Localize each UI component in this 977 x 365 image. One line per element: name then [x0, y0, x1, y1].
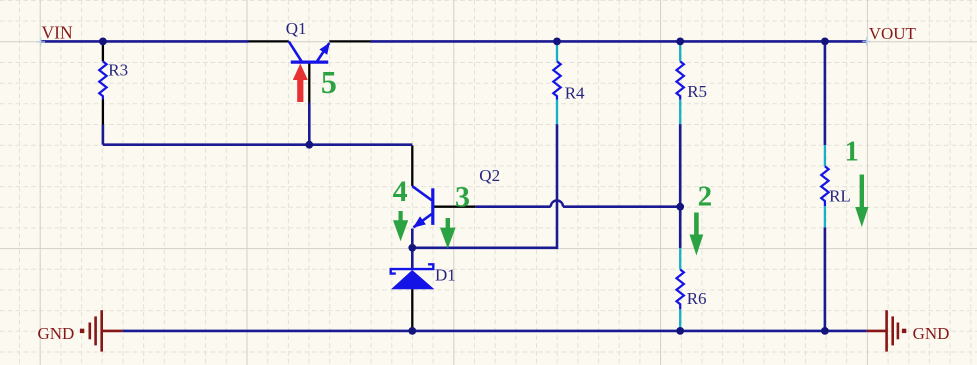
- svg-text:R5: R5: [687, 82, 707, 101]
- junction R5/R6/base: [676, 203, 684, 211]
- resistor R5 body: [677, 61, 684, 99]
- net marker VIN: [37, 38, 46, 47]
- Q1 base pin: [308, 62, 310, 102]
- R5 pin 1 (cyan): [679, 43, 681, 62]
- wire R5 node to R6: [679, 207, 682, 248]
- junction R4 top: [553, 38, 561, 46]
- wire hop over R4 branch: [551, 201, 563, 207]
- R6 pin 1 (cyan): [679, 248, 681, 269]
- wire Q2 base right of hop: [563, 205, 680, 208]
- svg-text:VOUT: VOUT: [869, 24, 917, 43]
- R6 pin 2 (cyan): [679, 309, 681, 331]
- svg-text:3: 3: [455, 181, 470, 214]
- junction RL top: [821, 38, 829, 46]
- annotation arrow 5 (red, up): [293, 64, 308, 103]
- wire Q1 base down: [308, 103, 311, 145]
- R4 pin 2 (cyan): [556, 100, 558, 125]
- junction VIN/R3: [99, 38, 107, 46]
- Q2 base pin: [434, 206, 475, 208]
- annotation arrow 3: [440, 218, 456, 249]
- RL pin 2 (cyan): [824, 206, 826, 227]
- svg-text:D1: D1: [435, 266, 456, 285]
- junction D1 GND: [408, 327, 416, 335]
- annotation arrow 4: [393, 211, 408, 241]
- Q2 collector pin: [411, 145, 413, 186]
- wire top VIN to Q1: [41, 40, 249, 43]
- resistor R3 body: [99, 61, 106, 99]
- wire top Q1 to VOUT: [371, 40, 867, 43]
- transistor Q1: [289, 41, 330, 62]
- junction RL GND: [821, 327, 829, 335]
- wire R3 to Q2 node: [103, 143, 412, 146]
- ground left: [80, 310, 122, 351]
- wire R5 bottom: [679, 124, 682, 207]
- D1 anode pin: [411, 289, 413, 330]
- R3 pin 1: [102, 43, 104, 62]
- svg-text:2: 2: [698, 181, 713, 213]
- wire node to D1: [411, 248, 414, 268]
- junction Q2 emitter/D1/R4: [408, 244, 416, 252]
- svg-text:VIN: VIN: [42, 23, 73, 43]
- wire Q2 base left of hop: [475, 205, 551, 208]
- svg-text:1: 1: [845, 136, 859, 167]
- wire Q2 emitter to node: [411, 229, 414, 248]
- transistor Q2: [412, 186, 433, 228]
- svg-text:4: 4: [393, 175, 408, 208]
- wire RL bottom: [824, 227, 827, 331]
- svg-text:R4: R4: [565, 83, 585, 102]
- resistor R6 body: [677, 270, 684, 310]
- RL pin 1 (cyan): [824, 145, 826, 166]
- svg-text:5: 5: [321, 64, 337, 100]
- svg-text:GND: GND: [913, 324, 950, 343]
- ground right: [867, 310, 907, 351]
- R5 pin 2 (cyan): [679, 100, 681, 125]
- junction Q1 base node: [305, 141, 313, 149]
- net marker VOUT: [862, 37, 871, 46]
- wire R3 bottom lead: [102, 125, 105, 145]
- svg-text:R3: R3: [108, 60, 128, 79]
- annotation arrow 2: [690, 213, 704, 256]
- wire GND bottom: [122, 330, 866, 333]
- junction R5 top: [676, 38, 684, 46]
- Q1 collector pin: [329, 40, 370, 42]
- wire R4 bottom branch: [414, 124, 557, 248]
- resistor RL body: [821, 166, 828, 206]
- svg-text:R6: R6: [687, 289, 707, 308]
- svg-text:RL: RL: [829, 187, 851, 206]
- svg-text:GND: GND: [38, 324, 75, 343]
- svg-text:Q2: Q2: [479, 166, 500, 185]
- junction R6 GND: [676, 327, 684, 335]
- svg-text:Q1: Q1: [286, 19, 307, 38]
- Q1 emitter pin: [249, 40, 289, 42]
- R3 pin 2: [102, 100, 104, 125]
- R4 pin 1 (cyan): [556, 43, 558, 62]
- resistor R4 body: [553, 61, 560, 99]
- zener diode D1: [391, 264, 435, 289]
- wire RL top: [824, 41, 827, 145]
- annotation arrow 1: [855, 175, 868, 228]
